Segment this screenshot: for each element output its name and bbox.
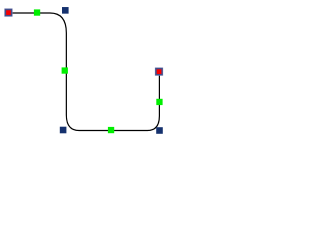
node green top <box>34 9 40 15</box>
node endpoint red right <box>155 67 163 75</box>
wire rounded connector path <box>9 13 160 131</box>
node endpoint red top-left <box>4 8 12 16</box>
node navy bottom-right corner <box>156 127 163 134</box>
node green left <box>62 67 68 73</box>
node navy top corner <box>62 7 69 14</box>
node navy bottom-left corner <box>60 127 67 134</box>
node green bottom <box>108 127 114 133</box>
node green right <box>156 99 162 105</box>
